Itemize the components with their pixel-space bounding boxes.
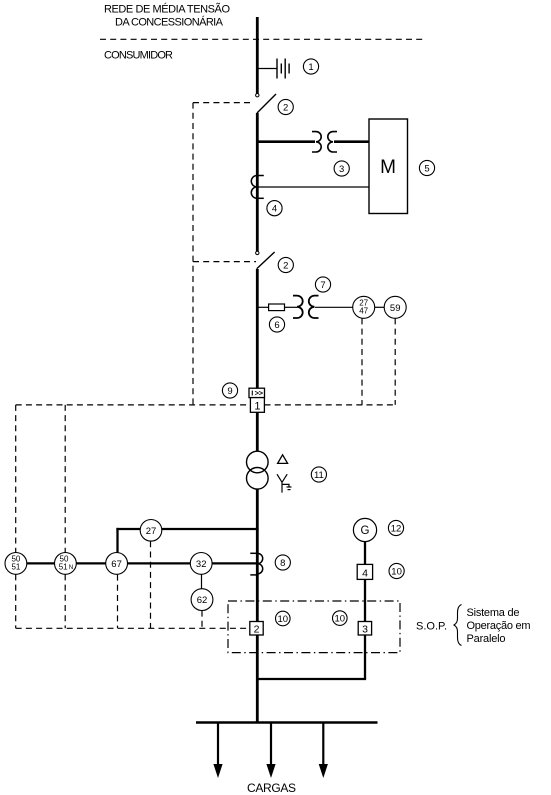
svg-text:>: > bbox=[259, 388, 264, 397]
svg-text:6: 6 bbox=[274, 320, 279, 331]
svg-text:51: 51 bbox=[59, 563, 68, 572]
svg-text:11: 11 bbox=[314, 470, 324, 481]
svg-text:1: 1 bbox=[254, 401, 260, 413]
svg-text:CONSUMIDOR: CONSUMIDOR bbox=[104, 50, 173, 62]
svg-text:47: 47 bbox=[359, 307, 368, 316]
svg-text:10: 10 bbox=[391, 567, 402, 578]
svg-text:G: G bbox=[361, 525, 370, 537]
svg-text:S.O.P.: S.O.P. bbox=[416, 621, 447, 633]
svg-text:1: 1 bbox=[308, 62, 313, 73]
svg-text:REDE DE MÉDIA TENSÃO: REDE DE MÉDIA TENSÃO bbox=[104, 3, 230, 16]
svg-text:62: 62 bbox=[197, 595, 208, 606]
svg-text:Operação em: Operação em bbox=[467, 620, 531, 632]
svg-text:2: 2 bbox=[283, 261, 288, 272]
svg-text:12: 12 bbox=[391, 524, 402, 535]
svg-text:3: 3 bbox=[362, 624, 368, 636]
svg-text:10: 10 bbox=[335, 614, 346, 625]
svg-text:27: 27 bbox=[146, 526, 157, 537]
svg-text:5: 5 bbox=[424, 164, 429, 175]
svg-text:3: 3 bbox=[339, 164, 344, 175]
svg-text:M: M bbox=[380, 157, 396, 178]
svg-text:Sistema de: Sistema de bbox=[467, 607, 520, 619]
svg-text:8: 8 bbox=[280, 558, 285, 569]
svg-text:Paralelo: Paralelo bbox=[467, 633, 506, 645]
svg-text:32: 32 bbox=[196, 559, 207, 570]
svg-text:4: 4 bbox=[272, 204, 277, 215]
svg-text:7: 7 bbox=[320, 280, 325, 291]
svg-text:4: 4 bbox=[362, 567, 368, 579]
svg-text:51: 51 bbox=[11, 563, 20, 572]
svg-text:N: N bbox=[69, 564, 73, 571]
svg-text:DA CONCESSIONÁRIA: DA CONCESSIONÁRIA bbox=[115, 16, 224, 29]
svg-text:2: 2 bbox=[283, 103, 288, 114]
svg-text:10: 10 bbox=[278, 614, 289, 625]
svg-text:59: 59 bbox=[390, 303, 401, 314]
svg-text:I: I bbox=[251, 388, 253, 397]
svg-text:67: 67 bbox=[111, 559, 122, 570]
svg-text:CARGAS: CARGAS bbox=[247, 781, 296, 795]
svg-text:9: 9 bbox=[227, 386, 232, 397]
svg-text:2: 2 bbox=[254, 624, 260, 636]
